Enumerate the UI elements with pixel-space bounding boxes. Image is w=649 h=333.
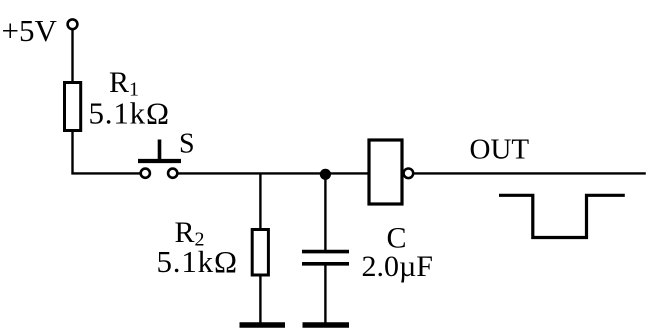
switch S: actuator stem	[158, 140, 162, 162]
svg-text:5.1kΩ: 5.1kΩ	[157, 244, 238, 279]
svg-text:OUT: OUT	[470, 134, 530, 166]
wire OUT	[413, 172, 646, 174]
switch S: right contact	[168, 169, 177, 178]
svg-text:S: S	[179, 129, 195, 160]
junction node dot	[320, 169, 331, 180]
capacitor C top plate	[302, 250, 349, 254]
switch S: actuator bar	[138, 159, 181, 163]
wire from R1 down and to switch	[73, 131, 141, 174]
output waveform (negative pulse)	[499, 195, 625, 237]
resistor R1	[65, 83, 81, 131]
ground (below R2)	[240, 322, 286, 328]
svg-text:5.1kΩ: 5.1kΩ	[89, 96, 170, 131]
wire from junction to capacitor	[324, 173, 326, 250]
wire branch down to R2	[259, 173, 261, 230]
+5V supply terminal	[68, 19, 78, 29]
capacitor C bottom plate	[302, 262, 349, 266]
resistor R2	[252, 230, 268, 276]
wire from capacitor to ground	[324, 265, 326, 323]
switch S: left contact	[141, 169, 150, 178]
inverter U1 body	[369, 140, 402, 204]
svg-text:2.0µF: 2.0µF	[362, 250, 433, 283]
wire from R2 to ground	[259, 275, 261, 323]
ground (below C)	[303, 322, 350, 328]
inverter U1 output bubble	[404, 169, 414, 179]
svg-text:+5V: +5V	[2, 13, 58, 48]
wire from switch to inverter input	[177, 172, 369, 174]
wire from terminal to R1	[71, 29, 73, 83]
